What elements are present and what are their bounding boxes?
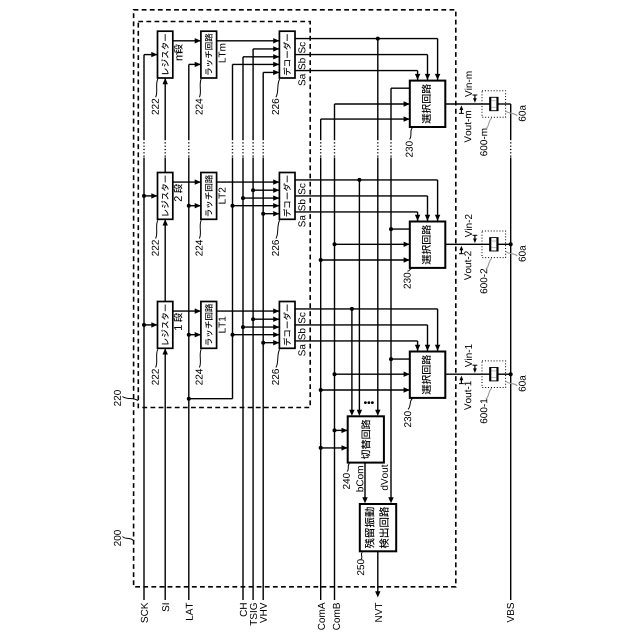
junction VBS row 2 <box>509 242 513 246</box>
wire SI chain register1-to-register2 <box>163 219 168 301</box>
wire VHV branch row m <box>263 70 279 75</box>
stage label m-dan <box>174 44 183 60</box>
wire latch-to-decoder row 1 <box>217 308 280 313</box>
net label Sc row m <box>298 42 305 53</box>
label 250 <box>357 553 364 576</box>
port label SI <box>162 603 169 611</box>
wire piezo-to-VBS row 1 <box>498 373 511 375</box>
junction SCK row 1 <box>142 323 146 327</box>
port label LAT <box>186 603 193 620</box>
wire SI chain register2-to-registerM <box>163 78 168 173</box>
wire Sb output row 1 <box>295 325 430 351</box>
label 600-m <box>480 118 492 156</box>
port label CH <box>240 603 247 616</box>
wire LAT rail <box>188 64 190 600</box>
wire register-to-latch row 1 <box>173 308 201 313</box>
piezo element 600-2 <box>482 231 506 258</box>
label 226 (m) <box>272 79 280 115</box>
net label Sa row 2 <box>298 215 305 227</box>
wire Sc output row 2 <box>295 180 440 221</box>
wire NVT output <box>375 551 380 597</box>
junction LAT-aux row 2 <box>231 204 235 208</box>
wire SCK branch row 1 <box>144 322 158 327</box>
port label ComB <box>333 603 340 630</box>
wire SI rail into register 1 <box>163 348 168 600</box>
label 222 (1) <box>152 349 159 385</box>
stage label 2-dan <box>174 184 183 201</box>
label 226 (1) <box>272 349 280 385</box>
latch circuit 224 (1-stage) <box>201 302 217 349</box>
wire Vout row m <box>445 103 489 105</box>
junction Sc branch row 1 <box>350 307 354 311</box>
junction ComB switching <box>333 428 337 432</box>
junction dVout row 1 <box>389 357 393 361</box>
signal label Vin-2 with arrow <box>465 214 478 243</box>
junction ComA switching <box>319 446 323 450</box>
junction TSIG row 1 <box>251 317 255 321</box>
wire Sc-to-switching row 2 <box>357 180 362 416</box>
label 222 (2) <box>152 220 159 255</box>
wire ComB branch row 1 <box>335 372 410 377</box>
junction ComA row 1 <box>319 388 323 392</box>
wire ComB branch row m <box>335 101 410 106</box>
wire LAT jog <box>189 398 233 400</box>
wire LAT-aux branch row 1 <box>233 332 280 337</box>
wire ComA-to-switching <box>321 445 348 450</box>
port label TSIG <box>250 603 257 625</box>
net label Sb row 2 <box>298 199 305 210</box>
wire LAT-aux branch row 2 <box>233 203 280 208</box>
label LT1 <box>219 317 226 333</box>
selection circuit 230 (2) <box>410 222 446 268</box>
junction ComA row 2 <box>319 258 323 262</box>
register 222 (2-stage) <box>158 173 173 220</box>
register 222 (1-stage) <box>158 302 173 349</box>
wire latch-to-decoder row 2 <box>217 179 280 184</box>
signal label Vin-1 with arrow <box>465 344 478 373</box>
wire Sa output row m <box>295 71 420 81</box>
junction Sc branch row 2 <box>357 178 361 182</box>
label 220 <box>114 390 138 406</box>
label 230 (1) <box>404 399 412 427</box>
label 222 (m) <box>152 79 159 115</box>
label 600-2 <box>480 259 492 294</box>
wire CH branch row 1 <box>243 324 279 329</box>
residual vibration detection circuit 250 <box>360 504 396 551</box>
decoder 226 (1-stage) <box>279 302 295 349</box>
wire Vout row 1 <box>445 373 489 375</box>
wire VHV branch row 2 <box>263 211 279 216</box>
wire CH rail <box>242 57 244 600</box>
signal label Vout-2 with arrow <box>459 246 471 280</box>
wire register-to-latch row 2 <box>173 179 201 184</box>
selection circuit 230 (m) <box>410 81 446 127</box>
junction LAT-aux row 1 <box>231 333 235 337</box>
label LT2 <box>219 188 226 204</box>
wire TSIG branch row m <box>253 46 279 51</box>
wire TSIG branch row 2 <box>253 188 279 193</box>
wire dVout tap row 1 <box>391 358 410 360</box>
label 226 (2) <box>272 220 280 255</box>
inner dashed box 220 (register/latch/decoder block) <box>138 22 310 408</box>
piezo element 600-m <box>482 91 506 118</box>
wire LAT aux rail to decoders <box>232 64 234 398</box>
port label SCK <box>141 603 148 623</box>
label 200 <box>114 530 133 546</box>
wire VHV branch row 1 <box>263 340 279 345</box>
junction dVout row 2 <box>389 227 393 231</box>
wire ComA branch row 2 <box>321 257 410 262</box>
wire Sb output row 2 <box>295 196 430 221</box>
label LTm <box>219 44 226 63</box>
wire SCK branch row m <box>144 52 158 57</box>
signal label Vout-m with arrow <box>459 105 471 142</box>
wire TSIG rail <box>252 49 254 600</box>
net label dVout <box>381 465 388 491</box>
label 230 (m) <box>406 128 413 157</box>
port label VBS <box>507 603 514 623</box>
wire bCom <box>362 463 367 504</box>
net label Sb row m <box>298 58 305 69</box>
wire ComB rail <box>334 104 336 600</box>
wire VHV rail <box>262 72 264 600</box>
junction CH row 1 <box>241 325 245 329</box>
wire TSIG branch row 1 <box>253 317 279 322</box>
junction VHV row 1 <box>261 341 265 345</box>
wire ComA rail <box>320 119 322 600</box>
wire Sc output row 1 <box>295 309 440 351</box>
wire VBS rail <box>510 104 512 600</box>
wire dVout tap row 2 <box>391 228 410 230</box>
register 222 (m-stage) <box>158 31 173 78</box>
latch circuit 224 (m-stage) <box>201 31 217 78</box>
wire ComB branch row 2 <box>335 242 410 247</box>
label 224 (2) <box>196 220 203 255</box>
junction ComB row 2 <box>333 242 337 246</box>
wire SCK rail <box>143 55 145 600</box>
signal label Vin-m with arrow <box>465 72 478 103</box>
selection circuit 230 (1) <box>410 352 446 398</box>
label 60a (2) <box>506 245 526 261</box>
stage label 1-dan <box>174 313 183 330</box>
port label NVT <box>375 603 382 622</box>
decoder 226 (m-stage) <box>279 31 295 78</box>
label 224 (m) <box>196 79 203 115</box>
label 600-1 <box>480 388 492 423</box>
junction VBS row 1 <box>509 372 513 376</box>
wire Sa output row 1 <box>295 341 420 351</box>
net label bCom <box>356 466 363 491</box>
label 60a (1) <box>506 375 526 391</box>
wire piezo-to-VBS row 2 <box>498 243 511 245</box>
junction LAT row 2 <box>187 204 191 208</box>
junction CH row 2 <box>241 196 245 200</box>
net label Sc row 1 <box>298 312 305 323</box>
wire SCK branch row 2 <box>144 193 158 198</box>
piezo element 600-1 <box>482 361 506 388</box>
wire CH branch row m <box>243 54 279 59</box>
port label ComA <box>318 603 325 630</box>
wire LAT branch row 2 <box>189 203 201 208</box>
junction VHV row 2 <box>261 212 265 216</box>
label 224 (1) <box>196 349 203 385</box>
net label Sa row 1 <box>298 344 305 356</box>
net label Sc row 2 <box>298 183 305 194</box>
wire Sc output row m <box>295 39 440 81</box>
label 240 <box>343 464 350 489</box>
wire CH branch row 2 <box>243 195 279 200</box>
wire LAT-aux branch row m <box>233 62 280 67</box>
junction TSIG row 2 <box>251 188 255 192</box>
net label Sa row m <box>298 74 305 86</box>
ellipsis dots omitted stages <box>364 401 374 404</box>
junction SCK row 2 <box>142 194 146 198</box>
wire LAT branch row m <box>189 62 201 67</box>
net label Sb row 1 <box>298 328 305 339</box>
junction LAT jog <box>187 397 191 401</box>
wire ComB-to-switching <box>335 428 348 433</box>
switching circuit 240 <box>348 416 384 462</box>
label 230 (2) <box>404 268 413 288</box>
wire Vout row 2 <box>445 243 489 245</box>
outer dashed box 200 (drive IC) <box>134 10 456 587</box>
latch circuit 224 (2-stage) <box>201 173 217 220</box>
wire dVout feedback rail <box>388 88 393 503</box>
junction ComB row 1 <box>333 372 337 376</box>
wire Sb output row m <box>295 55 430 81</box>
junction LAT row 1 <box>187 333 191 337</box>
wire LAT branch row 1 <box>189 332 201 337</box>
port label VHV <box>260 603 267 623</box>
wire piezo-to-VBS row m <box>498 103 511 105</box>
label 60a (m) <box>506 105 526 121</box>
wire Sc-to-switching row m <box>375 39 380 416</box>
junction Sc branch row m <box>376 37 380 41</box>
wire register-to-latch row m <box>173 38 201 43</box>
wire ComA branch row m <box>321 116 410 121</box>
signal label Vout-1 with arrow <box>459 376 471 410</box>
decoder 226 (2-stage) <box>279 173 295 220</box>
wire Sa output row 2 <box>295 212 420 221</box>
wire latch-to-decoder row m <box>217 38 280 43</box>
wire ComA branch row 1 <box>321 387 410 392</box>
wire dVout tap row m <box>391 87 410 89</box>
wire Sc-to-switching row 1 <box>349 309 354 416</box>
